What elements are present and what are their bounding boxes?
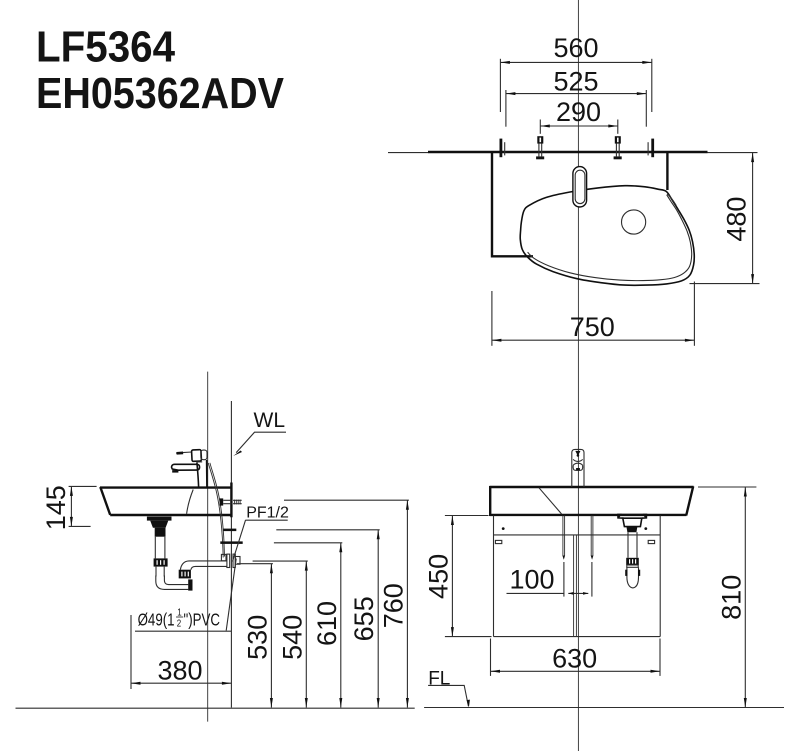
faucet lower dark mark (front) bbox=[576, 468, 580, 471]
drain flange body (front) bbox=[623, 518, 642, 526]
drain wall flange plate 1 bbox=[227, 554, 230, 567]
svg-text:480: 480 bbox=[722, 197, 752, 242]
basin back edge at wall (side) bbox=[230, 483, 232, 518]
dimension 100 arrowheads bbox=[568, 592, 573, 595]
svg-text:450: 450 bbox=[424, 554, 454, 599]
trap bulb side tabs (front) bbox=[625, 570, 627, 576]
faucet cartridge cap (side) bbox=[201, 450, 207, 460]
wall line WL (side view) bbox=[230, 401, 232, 708]
WL label underline leader bbox=[236, 432, 286, 452]
faucet lever pivot bowtie (front) bbox=[573, 459, 582, 465]
drain pipe PVC label bbox=[138, 606, 220, 630]
svg-text:100: 100 bbox=[509, 565, 554, 595]
dimension 290 line bbox=[540, 125, 618, 127]
cabinet outline in plan right edge bbox=[666, 153, 668, 190]
svg-text:1: 1 bbox=[177, 606, 181, 617]
svg-text:655: 655 bbox=[349, 596, 379, 641]
basin front slope (side) bbox=[100, 487, 110, 515]
svg-text:560: 560 bbox=[553, 33, 598, 63]
dimension 540 line bbox=[305, 561, 307, 707]
trap union nut upper bbox=[154, 558, 168, 566]
dimension 750 extension lines bbox=[491, 291, 493, 346]
trap U-bend bbox=[156, 576, 189, 590]
faucet neck (side) bbox=[196, 461, 202, 463]
left hanger bracket thick tick bbox=[500, 139, 503, 158]
drain locknut bbox=[155, 528, 166, 537]
drain pipe (front) bbox=[627, 532, 629, 558]
supply hose right (front) bbox=[590, 516, 592, 556]
dimension 630 extension lines bbox=[490, 639, 492, 676]
supply hose left tip bbox=[562, 556, 565, 560]
cabinet right side (front) bbox=[659, 516, 661, 637]
faucet spout (side) bbox=[172, 464, 200, 470]
dimension 530 extension line bbox=[237, 563, 273, 565]
svg-text:540: 540 bbox=[277, 615, 307, 660]
PF1/2 leader line to wall fitting bbox=[233, 520, 246, 561]
drain flange dark neck (front) bbox=[626, 527, 637, 533]
basin right slanted edge (front) bbox=[686, 486, 693, 515]
floor line FL bbox=[16, 707, 415, 709]
basin top edge (front) bbox=[490, 486, 694, 488]
trap downpipe bbox=[155, 567, 157, 577]
trap washer band (front) bbox=[627, 565, 638, 567]
WL leader arrowhead bbox=[233, 451, 242, 457]
svg-text:2: 2 bbox=[177, 617, 181, 628]
supply stub break bar upper bbox=[223, 529, 236, 532]
cabinet top rail line bbox=[494, 534, 661, 536]
dimension 525 line bbox=[506, 93, 646, 95]
dimension 560 extension lines bbox=[499, 59, 501, 112]
PF1/2 underline leader bbox=[245, 519, 287, 521]
right mounting bolt foot bbox=[614, 156, 622, 159]
supply hose right tip bbox=[591, 556, 594, 560]
drain flange under basin bbox=[147, 517, 172, 521]
wall line (plan) thin right extension bbox=[708, 152, 758, 154]
faucet hole inner (plan) bbox=[575, 170, 585, 203]
cabinet left side (front) bbox=[493, 516, 495, 637]
pop-up rod hole circle (plan) bbox=[622, 210, 646, 234]
drain wall flange plate 2 bbox=[233, 554, 235, 567]
cabinet door gap bbox=[573, 535, 575, 637]
vertical centerline through plan and front views bbox=[577, 0, 579, 751]
dimension 655 line bbox=[377, 530, 379, 708]
faucet body column (side) bbox=[197, 460, 207, 487]
dimension 145 line bbox=[70, 486, 72, 526]
svg-text:630: 630 bbox=[552, 643, 597, 673]
dimension 290 extension lines bbox=[539, 120, 541, 134]
trap bulb with round bottom (front) bbox=[627, 567, 639, 588]
faucet lever handle (side) bbox=[183, 451, 193, 454]
dimension 530 line bbox=[270, 564, 272, 708]
dimension 145 extension lines bbox=[69, 485, 97, 487]
dimension 100 extension lines bbox=[563, 562, 565, 597]
drain flange corner wings (front) bbox=[617, 514, 622, 518]
flexible supply hose (side) bbox=[208, 463, 223, 558]
left mounting bolt shaft bbox=[538, 143, 540, 156]
svg-text:810: 810 bbox=[716, 575, 746, 620]
FL underline leader bbox=[428, 685, 468, 706]
dimension 480 bottom extension line bbox=[690, 283, 760, 285]
svg-text:525: 525 bbox=[553, 66, 598, 96]
svg-text:Ø49(1: Ø49(1 bbox=[138, 611, 175, 630]
faucet knob dark triangle (front) bbox=[575, 451, 580, 456]
right hanger thin tick bbox=[647, 142, 649, 155]
left mounting bolt head bbox=[537, 136, 543, 143]
wall line (plan) thick counter segment bbox=[428, 151, 708, 153]
drain tailpiece bbox=[154, 537, 156, 559]
dimension 610 line bbox=[340, 543, 342, 708]
faucet hole outer (plan) bbox=[573, 167, 587, 207]
dimension 380 left extension line bbox=[130, 615, 132, 689]
hose wall nut bbox=[221, 554, 226, 560]
cabinet left handle bbox=[495, 540, 501, 543]
supply stub break bar lower bbox=[220, 541, 242, 544]
PVC label leader to drain outlet bbox=[226, 559, 236, 631]
basin corner detail diagonal bbox=[539, 488, 562, 514]
dimension 560 line bbox=[500, 61, 651, 63]
trap outlet elbow and horizontal pipe to wall bbox=[180, 561, 226, 570]
basin deck top (side) bbox=[100, 486, 231, 488]
wall supply bolt shaft bbox=[223, 499, 231, 501]
svg-text:760: 760 bbox=[378, 583, 408, 628]
faucet aerator tip bbox=[172, 470, 178, 473]
faucet knob dot bbox=[577, 454, 580, 457]
basin outer rim (plan) bbox=[520, 186, 694, 286]
cabinet bottom (front) bbox=[494, 636, 661, 638]
faucet lower cap (front) bbox=[573, 465, 583, 470]
right mounting bolt shaft bbox=[615, 143, 617, 156]
dimension 610 extension line bbox=[274, 542, 342, 544]
svg-text:290: 290 bbox=[556, 97, 601, 127]
svg-text:LF5364: LF5364 bbox=[36, 22, 175, 71]
dimension 760 line bbox=[406, 500, 408, 707]
left hanger thin tick bbox=[504, 142, 506, 155]
dimension 750 line bbox=[492, 339, 695, 341]
trap cleanout cap bbox=[188, 579, 192, 590]
drain wall flange stub bbox=[235, 557, 240, 565]
cabinet right screw bbox=[644, 527, 647, 530]
left mounting bolt foot bbox=[536, 156, 544, 159]
faucet body outline (front) bbox=[572, 449, 584, 487]
basin bottom edge (front) bbox=[490, 514, 687, 516]
right hanger bracket thick tick bbox=[651, 139, 654, 158]
dimension 655 extension line bbox=[276, 529, 379, 531]
drain flange top bar (front) bbox=[617, 515, 647, 519]
faucet centerline (side view) bbox=[207, 372, 209, 722]
basin inner rim line (plan) bbox=[528, 195, 692, 281]
wall line (plan) thin left segment bbox=[388, 152, 428, 154]
svg-text:FL: FL bbox=[428, 668, 450, 689]
svg-text:145: 145 bbox=[41, 485, 71, 530]
svg-text:PF1/2: PF1/2 bbox=[246, 504, 289, 521]
right mounting bolt head bbox=[615, 136, 621, 143]
wall supply bolt head bbox=[220, 498, 224, 505]
faucet handle tip bbox=[176, 452, 183, 455]
basin left edge (front) bbox=[489, 486, 491, 516]
wall supply bolt threads bbox=[233, 499, 242, 501]
svg-text:610: 610 bbox=[312, 601, 342, 646]
cabinet left screw bbox=[502, 527, 505, 530]
dimension 100 line with leader bbox=[507, 592, 565, 594]
trap union nut lower bbox=[179, 570, 191, 579]
dimension 450 line bbox=[451, 516, 453, 637]
dimension 525 extension lines bbox=[505, 90, 507, 127]
cabinet outline in plan (left edge and bottom) bbox=[492, 153, 533, 256]
svg-text:EH05362ADV: EH05362ADV bbox=[36, 69, 285, 118]
supply hose left (front) bbox=[562, 516, 564, 556]
dimension 540 extension line bbox=[253, 560, 308, 562]
cabinet right handle bbox=[648, 540, 654, 543]
faucet cartridge body (side) bbox=[192, 450, 202, 462]
dimension 450 extension lines bbox=[445, 515, 489, 517]
basin rim corner fold line bbox=[667, 194, 676, 206]
svg-text:530: 530 bbox=[242, 615, 272, 660]
dimension 480 line bbox=[752, 153, 754, 284]
svg-text:WL: WL bbox=[254, 409, 286, 432]
bowl interior slope line bbox=[187, 490, 194, 514]
svg-text:750: 750 bbox=[570, 312, 615, 342]
dimension 630 line bbox=[491, 670, 661, 672]
dimension 760 extension line bbox=[284, 499, 409, 501]
basin bottom (side) bbox=[110, 514, 231, 516]
dimension 810 top extension line bbox=[698, 486, 756, 488]
svg-text:")PVC: ")PVC bbox=[184, 611, 220, 630]
PVC label underline bbox=[135, 630, 231, 632]
svg-text:380: 380 bbox=[157, 655, 202, 685]
dimension 810 line bbox=[744, 487, 746, 708]
trap nut (front) bbox=[626, 558, 639, 565]
dimension 380 line bbox=[131, 682, 231, 684]
